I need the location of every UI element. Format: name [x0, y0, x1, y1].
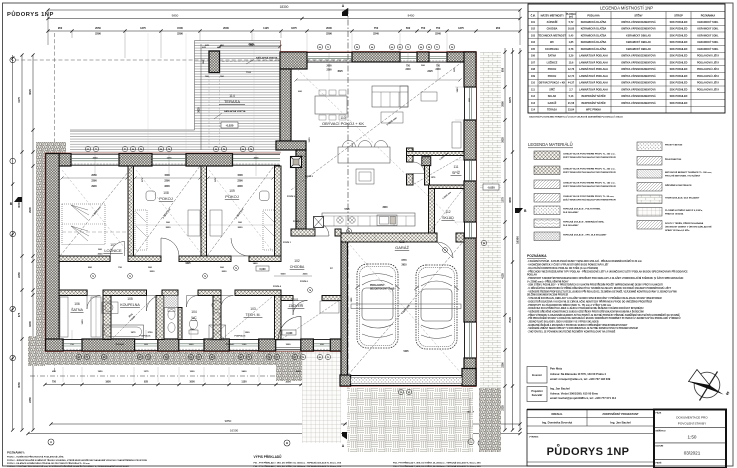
svg-text:PROSTÝ BETON: PROSTÝ BETON: [665, 144, 683, 147]
svg-text:P8: P8: [451, 47, 453, 49]
svg-text:5400: 5400: [242, 370, 248, 373]
spiz west shelf wall: [425, 166, 430, 185]
svg-text:9000: 9000: [281, 274, 287, 276]
svg-text:Petr Mráz: Petr Mráz: [550, 367, 563, 371]
svg-text:POZN.3 - DILATACE KOMÍNOVÉHO T: POZN.3 - DILATACE KOMÍNOVÉHO TĚLESA OD Z…: [7, 462, 90, 465]
svg-text:2020: 2020: [222, 271, 228, 273]
east wall garage door opening: [464, 322, 466, 358]
svg-text:- UKONČENÍ OMÍTEK V ČÁSTI VÝPL: - UKONČENÍ OMÍTEK V ČÁSTI VÝPLNÍ OTVORŮ …: [527, 264, 609, 267]
svg-text:SDK PODHLED: SDK PODHLED: [670, 28, 688, 31]
svg-text:15,6: 15,6: [569, 61, 574, 64]
wall tech/zadveri: [275, 296, 282, 340]
garage west wall: [341, 239, 348, 386]
svg-text:OMÍTKA VÁPENOCEMENTOVÁ: OMÍTKA VÁPENOCEMENTOVÁ: [621, 68, 656, 71]
svg-text:1,85: 1,85: [569, 41, 574, 44]
svg-text:BEZODTOKOVÝ ŽLAB: BEZODTOKOVÝ ŽLAB: [370, 288, 395, 291]
car 2 garage: [416, 265, 457, 349]
faint guide lines across rooms: [147, 33, 149, 152]
svg-text:TEPELNÁ IZOLACE - POLYSTYREN,: TEPELNÁ IZOLACE - POLYSTYREN,: [563, 208, 601, 211]
svg-text:CELKOVÁ PLOCHA BEZ TERASY (m²): CELKOVÁ PLOCHA BEZ TERASY (m²) 153,57 CE…: [529, 116, 623, 119]
diagonal line koupelna: [112, 296, 155, 339]
svg-text:16300: 16300: [230, 429, 239, 433]
svg-text:750: 750: [436, 26, 441, 30]
svg-text:T1: T1: [327, 47, 329, 49]
svg-text:105: 105: [127, 297, 133, 301]
sklad west wall: [429, 189, 435, 234]
svg-text:DŘEVĚNÉ KONSTRUKCE: DŘEVĚNÉ KONSTRUKCE: [665, 184, 692, 187]
svg-text:PODLAHOVÁ LIŠTA: PODLAHOVÁ LIŠTA: [697, 82, 719, 85]
chodba dim line: [274, 275, 312, 277]
svg-text:KERAMICKÝ OBKLAD: KERAMICKÝ OBKLAD: [626, 48, 651, 51]
svg-text:-0,020: -0,020: [487, 186, 495, 190]
svg-text:NÁŠLAPNÁ VRSTVA: NÁŠLAPNÁ VRSTVA: [256, 57, 278, 60]
svg-text:POKOJ: POKOJ: [548, 68, 557, 71]
svg-text:ZÁDVEŘÍ: ZÁDVEŘÍ: [289, 303, 304, 308]
svg-text:T8: T8: [168, 149, 170, 151]
svg-text:MĚŘÍTKO: MĚŘÍTKO: [656, 429, 666, 432]
svg-text:T1: T1: [248, 357, 250, 359]
svg-text:KERAMICKÁ DLAŽBA: KERAMICKÁ DLAŽBA: [581, 34, 607, 37]
svg-text:5205: 5205: [403, 351, 409, 353]
svg-text:750: 750: [52, 381, 57, 384]
svg-text:- VEŠKERÉ ŘEŠENÍ PROFESÍ (ZTI,: - VEŠKERÉ ŘEŠENÍ PROFESÍ (ZTI,ÚT,EL) BUD…: [527, 290, 677, 293]
svg-text:DÍLČÍMI DOKUMENTACEMI PROFESÍ: DÍLČÍMI DOKUMENTACEMI PROFESÍ: [527, 294, 568, 297]
svg-text:FRAKCE 16/32/64: FRAKCE 16/32/64: [665, 212, 684, 215]
svg-text:1400: 1400: [253, 262, 259, 265]
toilet and bidet koupelna: [168, 310, 175, 320]
column witness dashes: [208, 73, 210, 151]
diagonal line spiz: [414, 156, 463, 184]
svg-text:B: B: [286, 441, 288, 445]
zadveri/chodba partial wall: [281, 296, 293, 301]
zadveri closet: [320, 301, 339, 313]
svg-text:Č.M.: Č.M.: [531, 14, 536, 17]
svg-text:2000: 2000: [326, 66, 332, 68]
svg-text:2750: 2750: [148, 332, 154, 334]
bottom axis circle D: [478, 440, 484, 446]
svg-text:TERASA: TERASA: [547, 109, 557, 112]
svg-text:POZN.1 - HLINÍKOVÁ PŘECHODOVÁ: POZN.1 - HLINÍKOVÁ PŘECHODOVÁ PODLAHOVÁ …: [7, 456, 64, 459]
svg-text:0,000: 0,000: [260, 268, 267, 271]
svg-text:SDK PODHLED: SDK PODHLED: [670, 41, 688, 44]
svg-text:2625: 2625: [249, 44, 255, 47]
entry walkway paving: [302, 351, 341, 443]
living hall door arc: [315, 222, 329, 236]
svg-text:ZÁDVEŘÍ: ZÁDVEŘÍ: [547, 21, 558, 24]
chimney at counter end: [314, 217, 324, 228]
svg-text:2325: 2325: [501, 405, 504, 411]
svg-text:PLOCHA: PLOCHA: [566, 13, 576, 16]
svg-text:LOŽNICE: LOŽNICE: [547, 61, 558, 64]
svg-text:1950: 1950: [98, 371, 104, 373]
svg-text:GARÁŽ: GARÁŽ: [548, 102, 557, 105]
section flag B right: [515, 208, 523, 213]
svg-text:9850: 9850: [172, 14, 179, 18]
svg-text:SDK PODHLED: SDK PODHLED: [670, 75, 688, 78]
gravel strip along south wall: [45, 351, 302, 365]
svg-text:KERAMICKÝ SOKL: KERAMICKÝ SOKL: [697, 34, 719, 37]
svg-text:5,16: 5,16: [569, 95, 574, 98]
svg-text:ŽELEZOBETON: ŽELEZOBETON: [665, 158, 682, 161]
svg-text:PODLAHOVÝ: PODLAHOVÝ: [370, 284, 385, 287]
svg-text:OMÍTKA VÁPENOCEMENTOVÁ: OMÍTKA VÁPENOCEMENTOVÁ: [621, 75, 656, 78]
svg-text:NÁŠLAPNÁ VRSTVA: NÁŠLAPNÁ VRSTVA: [224, 110, 246, 113]
svg-text:POKOJ: POKOJ: [159, 196, 173, 201]
svg-text:Ing. Jan Bachel: Ing. Jan Bachel: [550, 387, 570, 391]
svg-text:5,72: 5,72: [569, 21, 574, 24]
svg-text:6,78: 6,78: [569, 48, 574, 51]
svg-text:P04 - PTH PŘEKLAD 7, 3KS, DO S: P04 - PTH PŘEKLAD 7, 3KS, DO STĚNY, DL 2…: [393, 462, 481, 465]
svg-text:T5: T5: [302, 357, 304, 359]
svg-text:1000: 1000: [189, 344, 195, 346]
svg-text:1:50: 1:50: [688, 435, 697, 440]
witness lines to bottom chain: [62, 367, 64, 382]
svg-text:18300: 18300: [280, 5, 289, 9]
svg-text:23,84: 23,84: [568, 109, 575, 112]
svg-text:- ZHOTOVITEL JE POVINEN SKUTEČ: - ZHOTOVITEL JE POVINEN SKUTEČNÉ ROZMĚRY…: [527, 331, 616, 334]
svg-text:VÝPIS PŘEKLADŮ: VÝPIS PŘEKLADŮ: [254, 454, 283, 459]
svg-text:2625: 2625: [254, 158, 260, 160]
corridor north wall (bedrooms south): [59, 256, 110, 262]
svg-text:- DIGESTOŘ OSAZENÁ V KUCHYNI J: - DIGESTOŘ OSAZENÁ V KUCHYNI JE CIRKULAČ…: [527, 300, 652, 303]
dimension chain bottom 9850: [51, 423, 345, 425]
window markers north living wing: [317, 44, 322, 49]
svg-text:T1: T1: [327, 357, 329, 359]
svg-text:2050: 2050: [91, 174, 97, 177]
interior wall 109/hall: [275, 166, 282, 256]
svg-text:101: 101: [293, 298, 299, 302]
svg-text:T2: T2: [204, 276, 206, 278]
svg-text:1000: 1000: [190, 371, 196, 373]
svg-text:1375: 1375: [458, 26, 464, 30]
room door dims 109: [208, 224, 273, 226]
svg-text:KERAMICKÝ OBKLAD: KERAMICKÝ OBKLAD: [626, 34, 651, 37]
svg-text:- VEŠKERÉ ZMĚNY NEBO ÚPRAVY V: - VEŠKERÉ ZMĚNY NEBO ÚPRAVY V DOKUMENTAC…: [527, 327, 638, 330]
svg-text:114: 114: [229, 94, 235, 98]
svg-text:4125: 4125: [501, 273, 504, 279]
svg-text:2020: 2020: [150, 271, 156, 273]
svg-text:PODLAHA: PODLAHA: [587, 14, 600, 17]
spiz door arc: [413, 162, 425, 174]
svg-text:- U DŘEVĚNÝCH KONSTRUKCÍ Z PŘÍ: - U DŘEVĚNÝCH KONSTRUKCÍ Z PŘÍMÉ DŘEVÉNA…: [527, 287, 672, 290]
bedroom wing north windows: [71, 153, 119, 155]
wardrobe loznice dotted: [62, 204, 105, 245]
svg-text:SPÍŽ: SPÍŽ: [549, 88, 555, 91]
desk pokoj108: [188, 210, 200, 236]
svg-text:2910: 2910: [401, 265, 407, 267]
svg-text:2425: 2425: [427, 70, 433, 73]
exterior wall south piers: [46, 339, 64, 351]
svg-text:2000: 2000: [326, 26, 332, 30]
svg-text:2290: 2290: [95, 32, 101, 36]
slope dashed line on deck: [222, 61, 280, 62]
svg-text:TECHNICKÁ MÍSTNOST: TECHNICKÁ MÍSTNOST: [538, 34, 566, 37]
red insulation line east: [476, 51, 478, 386]
svg-text:TECH. M.: TECH. M.: [246, 313, 261, 317]
svg-text:3625: 3625: [198, 107, 201, 113]
svg-text:Investor: Investor: [532, 373, 542, 377]
gravel column right of driveway: [479, 388, 501, 452]
room legend rows: [528, 24, 725, 26]
tech equipment washer X: [209, 325, 226, 340]
svg-text:NÁZEV MÍSTNOSTI: NÁZEV MÍSTNOSTI: [541, 14, 564, 17]
exterior wall east: [464, 52, 476, 87]
interior dims pokoj109: [208, 177, 273, 179]
svg-text:925: 925: [144, 381, 149, 384]
svg-text:POZN 3: POZN 3: [297, 156, 306, 158]
svg-text:6375: 6375: [508, 97, 512, 103]
svg-text:16300: 16300: [515, 236, 519, 244]
svg-text:2350: 2350: [28, 397, 32, 403]
bath row door arcs: [87, 296, 101, 310]
svg-text:3800: 3800: [508, 197, 512, 203]
svg-text:K3: K3: [319, 357, 321, 359]
svg-text:2240: 2240: [435, 32, 441, 36]
left axis circles: [10, 57, 16, 63]
roof overhang dashed line bottom: [30, 375, 300, 377]
svg-text:BEZPRAŠNÝ NÁTĚR: BEZPRAŠNÝ NÁTĚR: [581, 95, 605, 98]
gravel patch above west corner: [45, 142, 66, 153]
svg-text:SDK PODHLED: SDK PODHLED: [670, 95, 688, 98]
svg-text:1150: 1150: [241, 381, 247, 384]
svg-text:103: 103: [531, 34, 536, 37]
red insulation line south: [45, 351, 341, 353]
svg-text:105: 105: [531, 48, 536, 51]
svg-text:2050: 2050: [93, 158, 99, 160]
svg-text:500: 500: [406, 26, 411, 30]
loznice centerline dashed: [62, 231, 128, 233]
svg-text:-0,020: -0,020: [286, 332, 293, 335]
svg-text:OMÍTKA VÁPENOCEMENTOVÁ: OMÍTKA VÁPENOCEMENTOVÁ: [621, 21, 656, 24]
svg-text:SPÁRY JE Rdt=0,2 MPa: SPÁRY JE Rdt=0,2 MPa: [665, 229, 690, 232]
svg-text:HYDROIZOLACE, DLE SKLADBY: HYDROIZOLACE, DLE SKLADBY: [665, 197, 700, 200]
dimension chain bottom middle: [350, 412, 472, 414]
svg-text:LAMINÁTOVÁ PODLAHA: LAMINÁTOVÁ PODLAHA: [579, 61, 608, 64]
svg-text:Adresa: Vinční 306/1/290, 615: Adresa: Vinční 306/1/290, 615 00 Brno: [550, 391, 599, 395]
diagonal line sklad: [430, 189, 463, 232]
bedroom door gaps arcs: [110, 242, 125, 257]
svg-text:- JEDNOTLIVÉ SKLADBY JSOU UVED: - JEDNOTLIVÉ SKLADBY JSOU UVEDENY VE VÝP…: [527, 321, 599, 324]
kitchen sink: [377, 215, 397, 226]
svg-text:BEZPRAŠNÝ NÁTĚR: BEZPRAŠNÝ NÁTĚR: [581, 102, 605, 105]
south entry door opening: [276, 339, 301, 341]
svg-text:4525: 4525: [337, 70, 343, 73]
svg-text:STĚNY: STĚNY: [634, 14, 643, 17]
dimension chain left vertical: [12, 55, 14, 430]
svg-text:110: 110: [531, 82, 536, 85]
svg-text:POZNÁMKA: POZNÁMKA: [701, 14, 716, 17]
svg-text:- VEŠKERÉ DŘEVĚNÉ KONSTRUKCE B: - VEŠKERÉ DŘEVĚNÉ KONSTRUKCE BUDOU OŠETŘ…: [527, 310, 644, 313]
south wall windows: [63, 338, 82, 340]
living south wall: [291, 229, 315, 236]
svg-text:2900: 2900: [28, 207, 32, 213]
svg-text:POZN 6: POZN 6: [300, 281, 309, 283]
svg-text:LAMINÁTOVÁ PODLAHA: LAMINÁTOVÁ PODLAHA: [579, 88, 608, 91]
red insulation line north bedroom wing: [45, 152, 281, 154]
svg-text:1860: 1860: [457, 87, 459, 93]
svg-text:POZN.2 - JEDNOPODLAŽNÍ KOMÍNOV: POZN.2 - JEDNOPODLAŽNÍ KOMÍNOVÉ TĚLESO S…: [7, 459, 148, 462]
svg-text:POKOJ: POKOJ: [548, 75, 557, 78]
terrace vertical dim line: [200, 44, 202, 150]
svg-text:KRESLIL: KRESLIL: [551, 412, 563, 416]
svg-text:2250: 2250: [17, 272, 21, 278]
svg-text:P10/5x01: P10/5x01: [116, 344, 125, 346]
svg-text:DLE SKLADBY: DLE SKLADBY: [563, 211, 579, 214]
svg-text:OMÍTKA VÁPENOCEMENTOVÁ: OMÍTKA VÁPENOCEMENTOVÁ: [621, 88, 656, 91]
svg-text:WPC PRKNA: WPC PRKNA: [586, 109, 601, 112]
svg-text:SDK PODHLED: SDK PODHLED: [670, 82, 688, 85]
svg-text:T1: T1: [95, 149, 97, 151]
svg-text:108: 108: [531, 68, 536, 71]
svg-text:1500: 1500: [164, 174, 170, 177]
svg-text:Adresa: Na Blanseku 1177/6, 14: Adresa: Na Blanseku 1177/6, 143 00 Praha…: [550, 372, 606, 376]
armchair living: [421, 92, 437, 101]
window markers north bedroom wing: [85, 146, 90, 151]
svg-text:101: 101: [531, 21, 536, 24]
svg-text:V+ ZÓNÉ mm) + PŘÍSLUŠNÝMI ROHY: V+ ZÓNÉ mm) + PŘÍSLUŠNÝMI ROHY: [527, 280, 569, 283]
svg-text:P10/P15x01: P10/P15x01: [139, 336, 151, 338]
dimension chain top 9850 / 8450: [48, 18, 520, 20]
svg-text:CIHELNÝ BLOK POROTHERM PROFI,: CIHELNÝ BLOK POROTHERM PROFI, TL. 140 mm…: [563, 182, 616, 185]
svg-text:2900: 2900: [91, 185, 97, 188]
exterior wall north bedroom wing piers: [46, 154, 71, 167]
satna shelves: [60, 297, 68, 337]
svg-text:3200: 3200: [237, 185, 243, 188]
svg-text:SDK PODHLED: SDK PODHLED: [670, 34, 688, 37]
chair symbol pokoj108: [146, 191, 156, 201]
zadveri door arc: [293, 301, 308, 316]
interior dims pokoj108: [135, 177, 200, 179]
terrace elevation box -0,020: [221, 122, 238, 128]
svg-text:16,85: 16,85: [568, 28, 575, 31]
svg-text:Ing. Dominika Dvorská: Ing. Dominika Dvorská: [542, 420, 573, 424]
svg-text:Projekční: Projekční: [531, 390, 543, 393]
wall satna/koupelna: [103, 296, 111, 340]
svg-text:LAMINÁTOVÁ PODLAHA: LAMINÁTOVÁ PODLAHA: [579, 68, 608, 71]
title block top border: [527, 409, 726, 411]
svg-text:1500: 1500: [309, 137, 311, 143]
roof overhang dashed line left: [54, 33, 56, 372]
svg-text:T1: T1: [147, 357, 149, 359]
svg-text:PODLAH: PODLAH: [527, 274, 537, 277]
dimension witness verticals from top chain: [47, 10, 49, 45]
svg-text:SKLAD: SKLAD: [548, 95, 557, 98]
svg-text:WC: WC: [550, 41, 554, 44]
bottom axis circle B: [284, 440, 290, 446]
svg-text:1125: 1125: [263, 26, 269, 30]
svg-text:1600: 1600: [28, 321, 32, 327]
svg-text:PROLITÉ BETONEM, VYZTUŽENÝ: PROLITÉ BETONEM, VYZTUŽENÝ: [665, 174, 701, 177]
section line A-A vertical dash-dot: [347, 8, 349, 440]
dining table: [315, 96, 347, 114]
section flag A top: [342, 8, 348, 16]
dimension chain top fine: [48, 30, 520, 32]
svg-text:- BAREVNÉ ŘEŠENÍ A MATERIÁLY P: - BAREVNÉ ŘEŠENÍ A MATERIÁLY POVRCHU BUD…: [527, 324, 628, 327]
svg-text:5,45: 5,45: [569, 34, 574, 37]
svg-text:21,58: 21,58: [568, 102, 575, 105]
svg-text:GARÁŽ: GARÁŽ: [395, 245, 409, 250]
exterior wall west: [46, 154, 60, 352]
south zadveri window: [313, 338, 330, 340]
svg-text:1675: 1675: [291, 26, 297, 30]
interior dims living: [296, 79, 460, 81]
svg-text:2290: 2290: [237, 179, 243, 182]
red insulation line garage front: [340, 386, 477, 388]
svg-text:113: 113: [531, 102, 536, 105]
svg-text:LEGENDA MÍSTNOSTÍ 1NP: LEGENDA MÍSTNOSTÍ 1NP: [600, 5, 653, 10]
svg-text:PC: PC: [330, 268, 333, 270]
svg-text:OBÝVACÍ POKOJ + KK: OBÝVACÍ POKOJ + KK: [322, 121, 364, 126]
paving strip along east wall: [480, 52, 501, 234]
svg-text:T3: T3: [92, 276, 94, 278]
kitchen stove block: [356, 169, 374, 184]
svg-text:12,74: 12,74: [568, 75, 575, 78]
svg-text:P05 - PTH PŘEKLAD 7, 4KS, DO S: P05 - PTH PŘEKLAD 7, 4KS, DO STĚNY, DL 3…: [393, 465, 481, 468]
svg-text:T1: T1: [86, 357, 88, 359]
svg-text:PODLAHOVÁ LIŠTA: PODLAHOVÁ LIŠTA: [697, 61, 719, 64]
svg-text:2000: 2000: [223, 26, 229, 30]
svg-text:POZN 8: POZN 8: [293, 221, 302, 223]
svg-text:POKOJ: POKOJ: [225, 194, 239, 199]
svg-text:3625: 3625: [28, 89, 32, 95]
svg-text:KERAMICKÝ SOKL: KERAMICKÝ SOKL: [697, 41, 719, 44]
elevation box -0,020 east: [483, 184, 499, 190]
svg-text:2240: 2240: [435, 68, 441, 71]
svg-text:DLE SKLADBY: DLE SKLADBY: [563, 224, 579, 227]
svg-text:email: mrazpetr@atlas.cz, tel:: email: mrazpetr@atlas.cz, tel: +420 737 …: [550, 377, 611, 381]
living wing west wall: [280, 69, 291, 141]
svg-text:2290: 2290: [326, 32, 332, 36]
svg-text:1500: 1500: [177, 26, 183, 30]
svg-text:2290: 2290: [326, 70, 332, 72]
garage north wall: [341, 233, 437, 242]
svg-text:- SDK STĚNY, PODHLEDY - V PROS: - SDK STĚNY, PODHLEDY - V PROSTORÁCH S V…: [527, 284, 663, 287]
svg-text:T3: T3: [129, 276, 131, 278]
svg-text:-0,020: -0,020: [226, 124, 234, 128]
chimney block komin: [291, 157, 302, 168]
svg-text:2020: 2020: [98, 254, 104, 256]
svg-text:OMÍTKA VÁPENOCEMENTOVÁ: OMÍTKA VÁPENOCEMENTOVÁ: [621, 61, 656, 64]
svg-text:STROP: STROP: [674, 14, 683, 17]
svg-text:Kancelář: Kancelář: [532, 394, 543, 397]
svg-text:POZN 4: POZN 4: [273, 285, 282, 288]
svg-text:2290: 2290: [91, 179, 97, 182]
svg-text:2535: 2535: [303, 274, 309, 276]
svg-text:2020: 2020: [238, 227, 244, 229]
axis dash over deck: [195, 59, 376, 61]
garage drainage channel grate: [351, 378, 462, 384]
terrace edge lines: [195, 40, 281, 42]
svg-text:KERAMICKÁ DLAŽBA: KERAMICKÁ DLAŽBA: [581, 28, 607, 31]
svg-text:LOŽNICE: LOŽNICE: [104, 248, 122, 253]
svg-text:SDK PODHLED: SDK PODHLED: [670, 102, 688, 105]
svg-text:108: 108: [163, 191, 169, 195]
diagonal line tech: [222, 296, 273, 339]
svg-text:CHODBA: CHODBA: [547, 28, 558, 31]
svg-text:1000: 1000: [189, 381, 195, 384]
svg-text:SDK PODHLED: SDK PODHLED: [670, 55, 688, 58]
svg-text:3050: 3050: [17, 382, 21, 388]
toilet wc: [189, 330, 198, 334]
svg-text:KERAMICKÝ SOKL: KERAMICKÝ SOKL: [697, 48, 719, 51]
svg-text:K6: K6: [391, 47, 393, 49]
svg-text:KERAMICKÁ DLAŽBA: KERAMICKÁ DLAŽBA: [581, 21, 607, 24]
svg-text:750: 750: [374, 26, 379, 30]
svg-text:104: 104: [191, 310, 197, 314]
svg-text:SDK PODHLED: SDK PODHLED: [670, 21, 688, 24]
svg-text:TERASA: TERASA: [224, 99, 240, 104]
svg-text:PLOŠNĚ HUTNĚNÝ NÁSYP 0,2 MPa,: PLOŠNĚ HUTNĚNÝ NÁSYP 0,2 MPa,: [665, 209, 703, 212]
